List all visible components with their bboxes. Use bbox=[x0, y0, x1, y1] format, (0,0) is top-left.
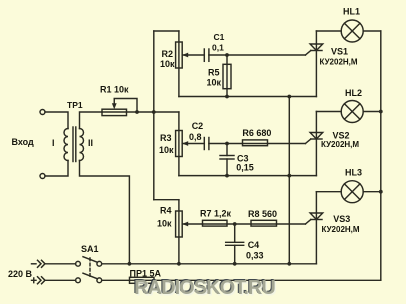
svg-text:HL1: HL1 bbox=[343, 7, 360, 17]
wire VS3 gate diagonal bbox=[305, 220, 310, 225]
wire right rail bbox=[380, 31, 382, 280]
svg-text:R2: R2 bbox=[162, 49, 174, 59]
wire VS1 anode-cathode vertical bbox=[315, 31, 317, 97]
lamp HL3 bbox=[341, 181, 363, 203]
capacitor C2 0,8 bbox=[203, 138, 205, 150]
svg-text:C2: C2 bbox=[192, 121, 204, 131]
svg-text:R7 1,2к: R7 1,2к bbox=[200, 209, 232, 219]
svg-text:VS3: VS3 bbox=[333, 214, 350, 224]
capacitor C4 0,33 bbox=[226, 241, 244, 243]
svg-text:КУ202Н,М: КУ202Н,М bbox=[322, 225, 360, 234]
svg-text:КУ202Н,М: КУ202Н,М bbox=[321, 140, 359, 149]
wire R2 lead vertical bbox=[178, 31, 180, 97]
wire wiper to R7 bbox=[182, 223, 202, 225]
svg-text:10к: 10к bbox=[157, 218, 172, 228]
lamp HL2 bbox=[341, 101, 363, 123]
svg-text:220 В: 220 В bbox=[8, 269, 33, 279]
wire wiper to C2 bbox=[182, 54, 204, 56]
terminal plus chevrons bbox=[32, 278, 37, 283]
svg-text:0,15: 0,15 bbox=[236, 163, 254, 173]
svg-text:ТР1: ТР1 bbox=[67, 100, 83, 110]
node HL3 right bbox=[379, 190, 383, 194]
node C4 bottom bbox=[233, 262, 237, 266]
resistor R5 10k bbox=[223, 64, 231, 88]
wire lamp HL2 right bbox=[363, 111, 381, 113]
wire lamp HL1 left bbox=[316, 30, 341, 32]
svg-text:R3: R3 bbox=[160, 133, 172, 143]
lamp HL1 bbox=[341, 20, 363, 42]
svg-text:10к: 10к bbox=[207, 78, 222, 88]
node cathode bus bottom bbox=[287, 262, 291, 266]
potentiometer R4 10k bbox=[176, 211, 183, 237]
wire secondary top to R1 bbox=[80, 112, 103, 129]
svg-text:Вход: Вход bbox=[12, 137, 35, 147]
wire channel 2 bottom bbox=[179, 175, 317, 177]
wire through R1 row bbox=[102, 111, 179, 113]
svg-text:HL3: HL3 bbox=[345, 168, 362, 178]
wire secondary bottom to negative rail bbox=[80, 161, 130, 264]
node C3 bottom bbox=[225, 174, 229, 178]
input terminal bottom bbox=[40, 174, 45, 179]
svg-text:VS1: VS1 bbox=[331, 47, 348, 57]
wire lamp HL1 right bbox=[363, 30, 381, 32]
wire R5 lead bbox=[226, 55, 228, 97]
wire VS2 gate diagonal bbox=[305, 139, 310, 144]
wire minus rail left bbox=[45, 263, 76, 265]
resistor R8 560 bbox=[251, 220, 277, 226]
node cathode bus top bbox=[287, 95, 291, 99]
svg-text:HL2: HL2 bbox=[345, 88, 362, 98]
thyristor VS2 bbox=[310, 133, 323, 140]
wire minus rail to VS3 bbox=[102, 263, 317, 265]
svg-text:II: II bbox=[88, 138, 93, 148]
wire VS2 anode-cathode vertical bbox=[315, 112, 317, 176]
capacitor C3 0,15 bbox=[220, 155, 234, 157]
node R7/R8/C4 junction bbox=[233, 222, 237, 226]
transformer core bbox=[72, 127, 74, 162]
resistor R7 1,2k bbox=[203, 220, 228, 226]
transformer TP1 secondary winding II bbox=[80, 129, 84, 161]
svg-text:0,33: 0,33 bbox=[246, 251, 264, 261]
potentiometer R2 10k bbox=[176, 42, 183, 68]
wire C4 bottom lead bbox=[234, 245, 236, 263]
resistor R1 10k bbox=[102, 109, 127, 115]
wire bus to R2 top bbox=[154, 30, 179, 32]
wire C2 to R6 bbox=[209, 143, 243, 145]
wire plus rail left bbox=[45, 279, 76, 281]
node bus tee bbox=[152, 110, 156, 114]
thyristor VS1 bbox=[310, 44, 323, 51]
wire R7 R8 row bbox=[203, 223, 306, 225]
svg-text:SA1: SA1 bbox=[81, 244, 99, 254]
svg-text:R5: R5 bbox=[208, 68, 220, 78]
wire plus rail through fuse bbox=[102, 279, 381, 281]
switch SA1 pole 2 bbox=[76, 278, 81, 283]
svg-text:0,1: 0,1 bbox=[212, 43, 224, 53]
R1 wiper tap wire bbox=[114, 99, 137, 113]
switch SA1 link bbox=[89, 258, 91, 278]
wire lamp HL3 left bbox=[316, 191, 341, 193]
svg-text:КУ202Н,М: КУ202Н,М bbox=[320, 58, 358, 67]
svg-text:R1 10к: R1 10к bbox=[100, 85, 129, 95]
node C2/C3/R6 junction bbox=[225, 142, 229, 146]
thyristor VS3 bbox=[310, 213, 323, 220]
node transformer return bbox=[127, 262, 131, 266]
wire R3 lead vertical bbox=[178, 112, 180, 176]
svg-text:C4: C4 bbox=[248, 240, 260, 250]
transformer TP1 primary winding I bbox=[64, 129, 68, 161]
svg-text:0,8: 0,8 bbox=[189, 132, 202, 142]
svg-text:R4: R4 bbox=[160, 206, 172, 216]
svg-text:RADIOSKOT.RU: RADIOSKOT.RU bbox=[134, 277, 275, 299]
node R5 bottom bbox=[225, 95, 229, 99]
svg-text:R8 560: R8 560 bbox=[248, 209, 277, 219]
node R4 bottom bbox=[177, 262, 181, 266]
wire C3 bottom lead bbox=[226, 159, 228, 176]
wire VS1 gate diagonal bbox=[305, 51, 310, 56]
svg-text:R6 680: R6 680 bbox=[242, 128, 271, 138]
wire C3 top lead bbox=[226, 144, 228, 156]
terminal minus chevrons bbox=[32, 263, 37, 265]
wire signal bus vertical bbox=[153, 31, 155, 200]
wire C4 top lead bbox=[234, 224, 236, 242]
capacitor C1 0,1 bbox=[203, 49, 205, 61]
wire lamp HL3 right bbox=[363, 191, 381, 193]
svg-text:I: I bbox=[52, 138, 55, 148]
wire input bottom to transformer bbox=[45, 161, 68, 177]
wire VS3 anode-cathode vertical bbox=[315, 192, 317, 264]
wire input top to transformer bbox=[45, 112, 68, 129]
wire cathode bus bbox=[288, 97, 290, 264]
input terminal top bbox=[40, 110, 45, 115]
wire channel 1 bottom bbox=[179, 96, 317, 98]
resistor R6 680 bbox=[243, 140, 268, 146]
switch SA1 pole 1 bbox=[76, 261, 81, 266]
node R1 output bbox=[135, 110, 139, 114]
wire R4 lead vertical bbox=[178, 200, 180, 264]
potentiometer R3 10k bbox=[176, 131, 183, 157]
node HL2 right bbox=[379, 110, 383, 114]
wire wiper to C3 bbox=[182, 143, 204, 145]
fuse PR1 5A bbox=[130, 277, 155, 283]
wire bus to R4 top bbox=[154, 199, 179, 201]
wire R6 row bbox=[243, 143, 306, 145]
wire C1 to gate bbox=[209, 54, 306, 56]
node cathode bus crossing bbox=[287, 174, 291, 178]
svg-text:10к: 10к bbox=[160, 59, 175, 69]
svg-text:C1: C1 bbox=[214, 32, 225, 42]
svg-text:10к: 10к bbox=[159, 145, 174, 155]
node C1/R5 junction bbox=[225, 53, 229, 57]
wire lamp HL2 left bbox=[316, 111, 341, 113]
